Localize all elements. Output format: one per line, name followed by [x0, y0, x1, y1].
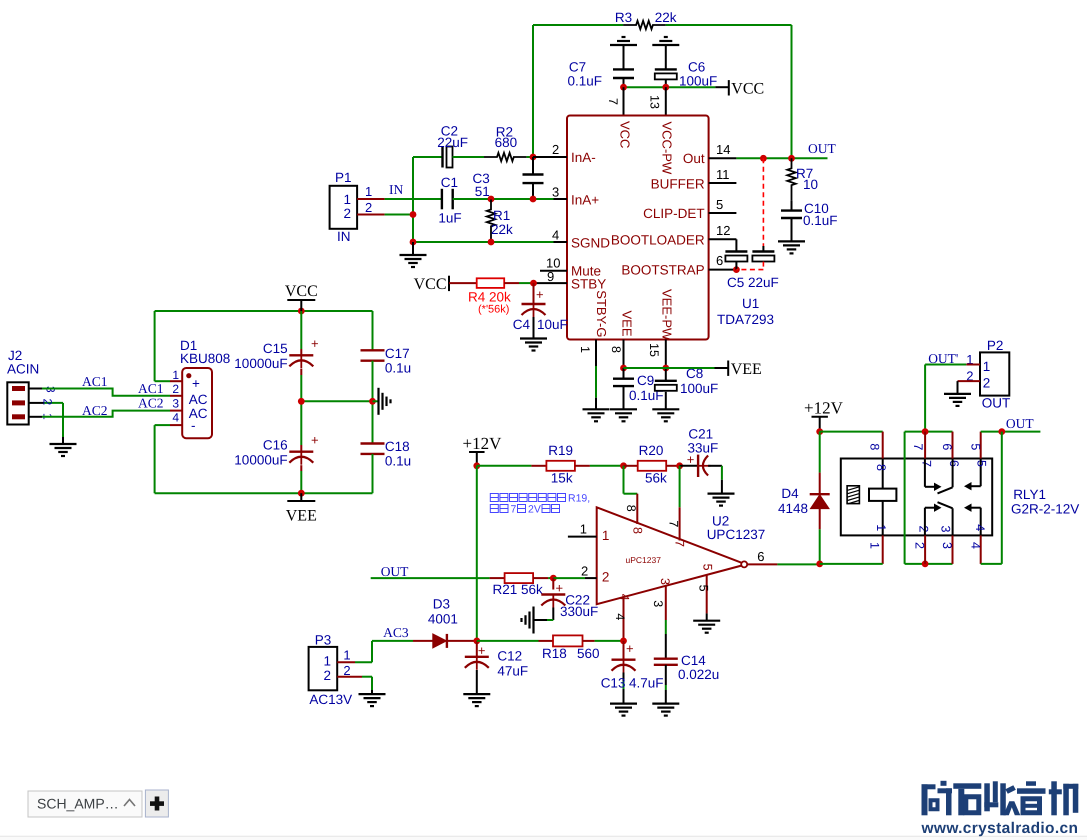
- svg-text:2: 2: [343, 206, 351, 221]
- wire J2 pin2: [29, 402, 44, 404]
- svg-text:C9: C9: [637, 373, 654, 388]
- svg-text:1: 1: [874, 524, 888, 531]
- svg-text:560: 560: [577, 646, 600, 661]
- svg-text:TDA7293: TDA7293: [717, 312, 774, 327]
- wire D1 pin1 to VCC rail: [155, 380, 170, 382]
- svg-text:1: 1: [365, 184, 372, 199]
- relay coil core hatched: [847, 486, 859, 504]
- svg-text:C14: C14: [681, 653, 706, 668]
- relay contact bottom blade pin3: [952, 508, 954, 535]
- svg-text:R20: R20: [639, 443, 664, 458]
- ground P2: [944, 393, 971, 395]
- svg-text:C18: C18: [385, 439, 410, 454]
- svg-text:4: 4: [969, 542, 983, 549]
- ground C9: [610, 408, 637, 410]
- svg-text:8: 8: [874, 464, 888, 471]
- wire P1 pin2: [357, 214, 385, 216]
- capacitor C21: [680, 465, 699, 467]
- node junction C12: [473, 638, 480, 645]
- svg-text:VCC: VCC: [414, 276, 447, 293]
- resistor R2: [484, 153, 527, 161]
- svg-text:SGND: SGND: [571, 236, 610, 251]
- svg-text:C21: C21: [688, 427, 713, 442]
- ground inverted above C7: [610, 44, 637, 46]
- sheet tab SCH_AMP: [28, 791, 142, 817]
- svg-text:6: 6: [947, 460, 961, 467]
- resistor R18: [539, 640, 554, 642]
- relay pin2 wire: [924, 535, 926, 564]
- svg-text:AC: AC: [189, 392, 208, 407]
- svg-text:13: 13: [647, 95, 661, 109]
- svg-text:uPC1237: uPC1237: [626, 555, 662, 565]
- svg-text:3: 3: [552, 185, 559, 200]
- wire +12V down to D3 row: [476, 466, 478, 641]
- svg-text:3: 3: [658, 578, 672, 585]
- svg-text:AC1: AC1: [82, 374, 108, 389]
- svg-text:BOOTSTRAP: BOOTSTRAP: [621, 263, 704, 278]
- svg-text:VCC: VCC: [618, 121, 633, 148]
- connector P3: [309, 647, 338, 690]
- svg-text:100uF: 100uF: [679, 73, 717, 88]
- svg-text:KBU808: KBU808: [180, 351, 230, 366]
- power port VCC top: [728, 80, 730, 95]
- svg-text:7: 7: [606, 98, 620, 105]
- wire feedback right vertical to Out: [791, 25, 793, 158]
- svg-text:0.1u: 0.1u: [385, 454, 411, 469]
- capacitor C6: [665, 45, 667, 69]
- wire C2 input vertical: [412, 157, 414, 242]
- wire pin1 STBY-G down: [595, 340, 597, 367]
- node junction C13: [620, 638, 627, 645]
- svg-text:14: 14: [716, 142, 730, 157]
- capacitor C7: [623, 45, 625, 69]
- svg-text:IN: IN: [389, 182, 403, 197]
- capacitor C13: [623, 641, 625, 660]
- svg-text:+12V: +12V: [804, 398, 844, 417]
- capacitor C1: [441, 189, 443, 210]
- ground C14: [652, 702, 679, 704]
- svg-text:R21 56k: R21 56k: [493, 582, 544, 597]
- note text line1: [490, 494, 565, 502]
- svg-text:47uF: 47uF: [497, 663, 528, 678]
- svg-text:7: 7: [667, 520, 681, 527]
- relay contact bottom pin4 fixed: [980, 508, 982, 536]
- svg-text:56k: 56k: [645, 471, 667, 486]
- svg-text:UPC1237: UPC1237: [707, 527, 766, 542]
- svg-text:R19: R19: [548, 443, 573, 458]
- svg-text:0.1uF: 0.1uF: [803, 213, 838, 228]
- svg-text:SCH_AMP…: SCH_AMP…: [37, 796, 119, 812]
- wire VEE rail: [624, 367, 715, 369]
- node junction R1 top: [488, 196, 495, 203]
- svg-text:R4 20k: R4 20k: [468, 290, 511, 305]
- svg-text:OUT: OUT: [808, 141, 836, 156]
- wire OUT to U2 pin2: [371, 577, 490, 579]
- svg-text:100uF: 100uF: [680, 381, 718, 396]
- svg-text:15: 15: [647, 343, 661, 357]
- wire C2 to R2: [453, 156, 485, 158]
- svg-text:C12: C12: [497, 649, 522, 664]
- wire group B vertical link: [904, 432, 906, 564]
- svg-text:0.1uF: 0.1uF: [567, 73, 602, 88]
- wire mid rail: [301, 400, 372, 402]
- capacitor C22: [552, 578, 554, 589]
- svg-text:5: 5: [969, 443, 983, 450]
- wire U2 pin1 stub: [568, 536, 597, 538]
- svg-text:1uF: 1uF: [438, 211, 461, 226]
- wire J2 pin1: [29, 416, 42, 418]
- svg-text:VCC: VCC: [731, 81, 764, 98]
- relay contact top blade pin6: [952, 459, 954, 488]
- svg-text:7: 7: [511, 504, 517, 516]
- wire SGND row: [413, 241, 554, 243]
- wire OUTp rail segment: [905, 431, 953, 433]
- connector J2: [7, 382, 28, 424]
- wire D1 pin4 to VEE rail: [155, 424, 170, 426]
- svg-text:22k: 22k: [491, 222, 513, 237]
- wire P3 pin1: [337, 661, 355, 663]
- wire feedback net top horizontal left segment: [533, 24, 623, 26]
- svg-text:+: +: [311, 433, 319, 448]
- svg-text:5: 5: [716, 197, 723, 212]
- svg-text:2: 2: [983, 376, 991, 391]
- svg-text:VEE: VEE: [620, 311, 635, 337]
- resistor R19: [531, 465, 546, 467]
- node junction ground: [410, 239, 417, 246]
- svg-text:P3: P3: [315, 633, 332, 648]
- svg-text:+: +: [556, 581, 564, 596]
- capacitor C17: [372, 311, 374, 350]
- svg-text:G2R-2-12V: G2R-2-12V: [1011, 502, 1079, 517]
- node junction mid rail left: [298, 398, 305, 405]
- svg-text:R18: R18: [542, 646, 567, 661]
- wire C1 to InA+: [453, 198, 554, 200]
- node junction R7: [788, 155, 795, 162]
- svg-text:OUT: OUT: [1006, 416, 1034, 431]
- relay pin1 wire: [882, 535, 884, 564]
- capacitor C5 alternate dashed position: [762, 158, 764, 246]
- svg-text:6: 6: [716, 253, 723, 268]
- svg-text:C15: C15: [263, 341, 288, 356]
- node junction VCC psu: [298, 308, 305, 315]
- capacitor C3: [532, 157, 534, 175]
- wire P1 pin1: [357, 198, 385, 200]
- wire P2 pin2 to ground: [958, 380, 981, 382]
- svg-text:AC1: AC1: [138, 381, 164, 396]
- svg-text:8: 8: [630, 527, 644, 534]
- ground C22 left: [532, 607, 534, 634]
- svg-text:(*'56k): (*'56k): [478, 304, 509, 316]
- capacitor C5: [735, 239, 737, 251]
- svg-text:C1: C1: [441, 175, 458, 190]
- capacitor C10: [791, 201, 793, 211]
- svg-text:5: 5: [975, 460, 989, 467]
- node junction InA-: [530, 154, 537, 161]
- capacitor C8: [665, 368, 667, 381]
- svg-text:ACIN: ACIN: [7, 362, 39, 377]
- svg-text:1: 1: [602, 528, 610, 543]
- relay contact top pin5 fixed: [980, 459, 982, 487]
- wire pin6 BOOTSTRAP: [709, 269, 737, 271]
- svg-text:22k: 22k: [655, 10, 677, 25]
- svg-text:2: 2: [323, 668, 331, 683]
- power port VEE psu: [300, 493, 302, 501]
- svg-text:6: 6: [940, 443, 954, 450]
- svg-text:2: 2: [172, 382, 179, 396]
- node junction pin6: [733, 266, 740, 273]
- svg-text:3: 3: [172, 397, 179, 411]
- ground mid rail: [373, 400, 378, 402]
- ground STBY-G: [583, 408, 610, 410]
- resistor R4 red box: [449, 282, 477, 284]
- capacitor C18: [372, 401, 374, 443]
- wire pin12 BOOTLOADER: [709, 238, 737, 240]
- wire R4 to STBY: [519, 282, 534, 284]
- connector P2: [980, 352, 1009, 395]
- power port +12V right: [812, 416, 828, 418]
- power port VEE: [727, 361, 729, 376]
- capacitor C4: [533, 283, 535, 304]
- diode D3: [413, 640, 433, 642]
- svg-text:3: 3: [940, 542, 954, 549]
- capacitor C12: [476, 641, 478, 657]
- relay pin5 wire: [980, 432, 982, 459]
- bottom separator: [0, 837, 1087, 840]
- svg-text:10uF: 10uF: [537, 317, 568, 332]
- svg-text:IN: IN: [337, 229, 351, 244]
- ground C12: [463, 693, 490, 695]
- svg-text:330uF: 330uF: [560, 604, 598, 619]
- svg-text:22uF: 22uF: [437, 135, 468, 150]
- node junction group B bottom: [922, 561, 929, 568]
- relay pin6 wire: [952, 432, 954, 459]
- ground U2 pin5: [693, 620, 720, 622]
- node junction R1 bottom: [488, 239, 495, 246]
- ground C13: [610, 702, 637, 704]
- node junction mid rail right: [369, 398, 376, 405]
- svg-text:6: 6: [757, 549, 764, 564]
- svg-text:VCC-PW: VCC-PW: [659, 122, 674, 175]
- svg-text:10: 10: [803, 177, 818, 192]
- wire feedback left vertical to InA-: [532, 25, 534, 157]
- svg-text:3: 3: [939, 526, 953, 533]
- power port VCC psu: [300, 300, 302, 311]
- svg-text:+12V: +12V: [463, 434, 503, 453]
- node junction C5 dashed: [760, 155, 767, 162]
- relay pin7 wire: [924, 432, 926, 459]
- ground P1 input: [412, 242, 414, 255]
- svg-text:5: 5: [701, 564, 715, 571]
- svg-text:8: 8: [609, 346, 623, 353]
- relay contact top pin7 fixed: [924, 459, 926, 487]
- svg-text:2: 2: [913, 542, 927, 549]
- capacitor C2: [441, 147, 443, 168]
- svg-text:C13: C13: [601, 676, 626, 691]
- node junction R19 R20: [620, 462, 627, 469]
- wire pin15 VEE-PW: [665, 340, 667, 369]
- svg-text:VCC: VCC: [285, 283, 318, 300]
- svg-text:AC2: AC2: [138, 396, 164, 411]
- relay pin3 wire: [952, 535, 954, 564]
- wire feedback net top horizontal right segment: [666, 24, 792, 26]
- ground J2: [50, 443, 77, 445]
- svg-text:CLIP-DET: CLIP-DET: [643, 206, 705, 221]
- node junction OUTp: [922, 428, 929, 435]
- relay pin4 wire: [980, 535, 982, 564]
- svg-text:0.1u: 0.1u: [385, 361, 411, 376]
- svg-text:STBY-G: STBY-G: [594, 290, 609, 337]
- power port +12V left: [469, 451, 485, 453]
- pin stubs D1: [170, 380, 182, 382]
- svg-text:C4: C4: [513, 317, 531, 332]
- svg-text:VEE-PW: VEE-PW: [659, 289, 674, 341]
- crystalradio logo chinese characters: [922, 781, 1079, 816]
- node junction C6: [662, 84, 669, 91]
- wire R2 to pin2 junction: [527, 156, 533, 158]
- node junction R20 C21: [676, 462, 683, 469]
- svg-text:D3: D3: [433, 597, 450, 612]
- svg-text:InA-: InA-: [571, 150, 596, 165]
- ground inverted above C6: [652, 44, 679, 46]
- svg-text:OUT': OUT': [928, 351, 958, 366]
- svg-text:P1: P1: [335, 170, 352, 185]
- J2 pin contact bars: [12, 386, 25, 391]
- wire J2 pin2 to ground: [62, 403, 64, 437]
- capacitor C16: [300, 401, 302, 445]
- svg-text:AC2: AC2: [82, 403, 108, 418]
- node junction coil drive: [816, 561, 823, 568]
- wire Mute pin10: [540, 270, 567, 272]
- resistor R20: [624, 465, 638, 467]
- svg-text:OUT: OUT: [982, 396, 1011, 411]
- node junction C9: [620, 365, 627, 372]
- svg-text:AC3: AC3: [383, 625, 409, 640]
- wire pin8 VEE: [623, 340, 625, 369]
- node junction +12V left: [473, 462, 480, 469]
- op-amp U1 TDA7293 body: [567, 116, 709, 340]
- svg-text:1: 1: [983, 359, 991, 374]
- node junction +12V right: [816, 428, 823, 435]
- svg-text:51: 51: [475, 184, 490, 199]
- svg-text:4: 4: [552, 228, 559, 243]
- capacitor C9: [623, 368, 625, 379]
- power port VCC for R4: [448, 276, 450, 291]
- wire U2 pin7: [679, 466, 681, 508]
- svg-text:4.7uF: 4.7uF: [629, 676, 664, 691]
- svg-text:680: 680: [495, 135, 518, 150]
- wire pin4 loop: [981, 563, 1002, 565]
- svg-text:1: 1: [343, 648, 350, 663]
- svg-text:D4: D4: [781, 486, 799, 501]
- wire U2 pin8: [623, 466, 625, 494]
- wire OUT rail right: [981, 431, 1041, 433]
- relay RLY1 body: [841, 459, 992, 536]
- svg-text:3: 3: [651, 600, 665, 607]
- svg-text:4148: 4148: [778, 501, 808, 516]
- svg-text:STBY: STBY: [571, 277, 606, 292]
- svg-text:InA+: InA+: [571, 193, 599, 208]
- ground P3: [359, 693, 386, 695]
- svg-text:1: 1: [578, 346, 592, 353]
- svg-text:10000uF: 10000uF: [234, 453, 287, 468]
- wire AC2 segment: [42, 411, 170, 417]
- svg-text:9: 9: [547, 269, 554, 284]
- op-amp U2 UPC1237 triangle: [597, 507, 746, 604]
- node junction OUT: [998, 428, 1005, 435]
- note text line2: [490, 505, 559, 513]
- wire J2 pin3: [29, 388, 42, 390]
- svg-text:2: 2: [602, 570, 610, 585]
- wire pin14 Out: [709, 157, 737, 159]
- node junction C22: [550, 575, 557, 582]
- svg-text:1: 1: [580, 522, 587, 537]
- svg-text:1: 1: [323, 654, 331, 669]
- bridge rectifier D1 KBU808: [182, 368, 212, 438]
- svg-text:1: 1: [172, 368, 179, 382]
- svg-text:BOOTLOADER: BOOTLOADER: [611, 232, 705, 247]
- svg-text:VEE: VEE: [286, 508, 317, 525]
- svg-text:5: 5: [697, 585, 711, 592]
- node junction C3 bottom: [530, 196, 537, 203]
- wire pin5 CLIP-DET: [709, 212, 737, 214]
- svg-text:2V: 2V: [528, 504, 541, 516]
- svg-text:4: 4: [613, 613, 627, 620]
- relay contact bottom pin2 fixed: [924, 508, 926, 536]
- svg-text:2: 2: [917, 526, 931, 533]
- wire VCC rail psu: [155, 310, 373, 312]
- svg-text:7: 7: [672, 540, 686, 547]
- svg-text:R1: R1: [493, 208, 510, 223]
- svg-text:+: +: [536, 287, 544, 302]
- svg-text:8: 8: [867, 443, 881, 450]
- relay coil: [882, 459, 884, 489]
- svg-text:8: 8: [624, 505, 638, 512]
- svg-text:RLY1: RLY1: [1013, 487, 1046, 502]
- svg-text:1: 1: [867, 542, 881, 549]
- node junction VEE psu: [298, 490, 305, 497]
- wire to R18: [477, 640, 539, 642]
- svg-text:2: 2: [365, 200, 372, 215]
- wire P2 pin1: [966, 364, 980, 366]
- resistor R3: [623, 21, 666, 29]
- svg-text:+: +: [311, 336, 319, 351]
- connector P1: [330, 186, 358, 229]
- svg-text:P2: P2: [987, 338, 1004, 353]
- svg-text:2: 2: [552, 142, 559, 157]
- wire group B bottom segment: [905, 563, 953, 565]
- ground C8: [652, 408, 679, 410]
- resistor R7: [787, 158, 795, 200]
- svg-text:C17: C17: [385, 346, 410, 361]
- wire to U2 pin2: [553, 577, 585, 579]
- wire U2 pin3: [665, 586, 667, 620]
- svg-text:11: 11: [716, 167, 730, 182]
- svg-text:VEE: VEE: [731, 361, 762, 378]
- svg-text:+: +: [192, 376, 200, 391]
- wire to C2: [413, 156, 443, 158]
- svg-text:OUT: OUT: [381, 564, 409, 579]
- svg-text:BUFFER: BUFFER: [651, 177, 705, 192]
- svg-text:4001: 4001: [428, 612, 458, 627]
- svg-text:2: 2: [581, 563, 588, 578]
- wire coil drive rail: [820, 563, 883, 565]
- wire R21 to C22: [548, 577, 553, 579]
- svg-text:2: 2: [41, 399, 55, 406]
- new sheet plus button: [145, 790, 168, 817]
- ground C21: [708, 493, 735, 495]
- svg-text:0.022u: 0.022u: [678, 667, 719, 682]
- capacitor C15: [300, 311, 302, 349]
